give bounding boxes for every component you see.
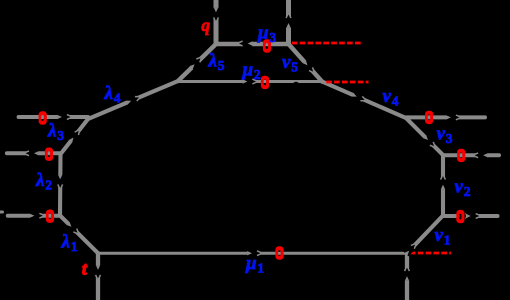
wire edge nu1 (407, 216, 443, 254)
node 0 on mu2 (261, 76, 269, 89)
arrow on left leg A (57, 114, 72, 121)
wire top-left vertical leg at C (214, 0, 219, 44)
wire right leg K (top-right external leg) (406, 115, 485, 119)
svg-text:t: t (82, 259, 88, 279)
arrow on mu1 (247, 250, 262, 257)
arrow on lambda2 (57, 175, 64, 190)
wire edge nu5 (289, 44, 323, 82)
dashed ray from D (292, 42, 363, 45)
arrow on right leg L (473, 152, 488, 159)
arrow on nu1 (403, 241, 418, 257)
wire edge lambda5 (178, 44, 216, 81)
dashed ray from G (326, 81, 368, 84)
svg-text:λ1: λ1 (61, 232, 78, 255)
wire edge mu3 (216, 42, 289, 46)
wire right leg M (bottom-right external leg) (443, 214, 498, 218)
svg-text:λ2: λ2 (35, 170, 52, 193)
svg-text:μ3: μ3 (257, 23, 276, 46)
wire edge nu4 (322, 82, 406, 119)
wire edge nu2 (441, 155, 445, 216)
wire left leg A (top-left external leg) (19, 115, 88, 119)
svg-text:ν2: ν2 (455, 177, 471, 200)
arrow on lambda3 (68, 127, 83, 143)
arrow on lambda4 (125, 94, 142, 106)
arrow on bottom-right vertical leg (404, 266, 411, 281)
arrow on right leg M first (456, 213, 471, 220)
svg-text:ν3: ν3 (437, 124, 453, 147)
wire bottom-left vertical leg at I (96, 253, 100, 300)
wire left leg H (bottom-left external leg) (8, 214, 60, 218)
arrow on right leg M second (466, 213, 481, 220)
wire top-right vertical leg at D (286, 0, 291, 44)
arrow on top-left vertical leg (213, 8, 220, 23)
wire edge lambda4 (88, 81, 178, 119)
arrow on lambda5 (189, 54, 205, 70)
node 0 on right leg L (457, 149, 465, 162)
arrow on mu2 (243, 78, 258, 85)
svg-text:λ5: λ5 (208, 51, 225, 74)
arrow on left leg H (30, 212, 45, 219)
wire left leg F2 (middle-left external leg) (7, 151, 61, 155)
arrow on nu4 (351, 92, 368, 104)
svg-text:λ3: λ3 (47, 121, 64, 144)
svg-text:ν1: ν1 (435, 225, 451, 248)
wire edge mu2 (178, 80, 322, 83)
arrow on lambda1 (66, 221, 82, 237)
svg-text:μ1: μ1 (245, 253, 264, 276)
wire edge lambda1 (60, 216, 98, 254)
node 0 on left leg A (39, 111, 47, 124)
wire edge lambda3 (61, 119, 88, 154)
arrow on mu3 (237, 40, 252, 47)
node 0 on right leg M (456, 210, 464, 223)
svg-text:q: q (201, 15, 210, 35)
wire edge nu3 (406, 118, 443, 155)
wire edge lambda2 (58, 154, 63, 216)
wire right leg L (middle-right external leg) (443, 153, 499, 157)
arrow on bottom-left vertical leg (95, 265, 102, 280)
svg-text:ν4: ν4 (383, 86, 399, 109)
arrow on left leg F2 (24, 150, 39, 157)
wire edge mu1 (98, 252, 407, 255)
arrow on nu5 (302, 59, 317, 75)
node 0 on mu1 (275, 246, 283, 259)
wire edge stub at left border (0, 211, 3, 214)
arrow on right leg K (446, 114, 461, 121)
node 0 on right leg K (425, 111, 433, 124)
svg-text:λ4: λ4 (104, 83, 121, 106)
svg-text:μ2: μ2 (242, 60, 261, 83)
node 0 on mu3 (263, 39, 271, 52)
arrow on nu3 (422, 134, 438, 150)
node 0 on left leg H (46, 210, 54, 223)
wire bottom-right vertical leg at J (405, 253, 409, 300)
arrow on top-right vertical leg (285, 13, 292, 28)
dashed ray from J (410, 252, 451, 255)
arrow on nu2 (440, 174, 447, 189)
node 0 on left leg F2 (45, 148, 53, 161)
node black dot on mu2 (293, 82, 300, 89)
